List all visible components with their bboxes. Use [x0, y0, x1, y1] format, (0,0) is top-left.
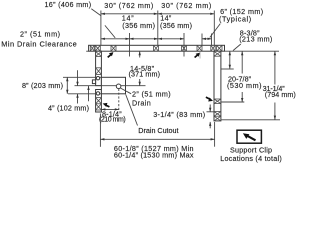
dimension span C (unlabelled): [158, 38, 184, 40]
support clip legend box: [237, 130, 261, 143]
label support clip locations: [220, 146, 282, 164]
dimension 8-1/4 horizontal: [101, 108, 118, 110]
svg-text:(530 mm): (530 mm): [227, 81, 262, 90]
right vertical support upright: [214, 51, 221, 121]
dimension 6in typical span: [202, 38, 212, 40]
dimension 30in first span: [101, 13, 158, 15]
svg-text:2” (51 mm): 2” (51 mm): [20, 29, 60, 38]
svg-text:30” (762 mm): 30” (762 mm): [161, 1, 211, 10]
dimension 8-3/8 vertical: [221, 51, 234, 69]
support clip pointer arrow P4: [103, 103, 110, 107]
drain centerline L2: [75, 85, 146, 87]
extension line at x=214.3: [213, 11, 215, 46]
dimension 20-7/8 vertical: [221, 51, 244, 102]
extension line at x=157.8: [157, 11, 159, 46]
svg-text:(Typical): (Typical): [219, 15, 251, 24]
label 31-1/4: [263, 84, 296, 99]
svg-text:Drain: Drain: [132, 99, 151, 108]
hatch cells on left upright lower: [96, 98, 102, 110]
bottom line of right upright extended: [221, 119, 280, 121]
hatch cells on right upright: [214, 51, 221, 121]
support clip pointer arrow P2: [195, 53, 201, 58]
svg-text:16” (406 mm): 16” (406 mm): [45, 0, 92, 9]
label 14-5/8: [129, 64, 161, 79]
leader segment to 14in row: [105, 25, 115, 38]
hole centerline L1 (top of cutout extended left): [63, 76, 101, 78]
svg-text:(356 mm): (356 mm): [160, 21, 192, 30]
dimension 3-1/4 arrows: [207, 105, 215, 129]
leader from drain cutout label to cutout corner: [126, 95, 138, 126]
mounting hole upper on left upright: [96, 77, 99, 80]
dimension 60-1/8 / 60-1/4 overall: [100, 114, 214, 147]
left vertical support upright (upper segment): [96, 51, 102, 85]
arrow pointing at drain centerline: [87, 86, 89, 101]
extension line at x=129.5: [129, 33, 131, 57]
svg-text:(213 mm): (213 mm): [239, 35, 272, 44]
svg-text:(356 mm): (356 mm): [122, 21, 155, 30]
label 8-3/8: [239, 29, 272, 44]
dimension 30in second span: [158, 13, 215, 15]
dimension 14in span A: [101, 38, 130, 40]
svg-text:30” (762 mm): 30” (762 mm): [104, 1, 153, 10]
svg-text:(210 mm): (210 mm): [99, 117, 126, 124]
dimension 31-1/4 vertical: [274, 51, 276, 119]
svg-text:Drain Cutout: Drain Cutout: [138, 126, 178, 135]
mounting hole lower on left upright: [96, 92, 99, 95]
dimension 14-5/8 vertical: [139, 51, 141, 85]
leader from Typical label: [210, 24, 221, 38]
extension line at x=211.5: [211, 34, 213, 46]
dimension 4in arrows: [76, 70, 78, 103]
drain hole: [116, 84, 121, 89]
dimension 8in vertical: [66, 77, 68, 94]
extension line at x=202: [201, 34, 203, 46]
faint tick below bar at x=200: [199, 52, 201, 59]
svg-text:60-1/4” (1530 mm) Max: 60-1/4” (1530 mm) Max: [114, 151, 194, 160]
leader from drain hole to its label: [120, 88, 131, 94]
drain cutout rectangle: [101, 77, 125, 94]
svg-text:2” (51 mm): 2” (51 mm): [132, 89, 171, 98]
svg-text:8” (203 mm): 8” (203 mm): [22, 81, 63, 90]
svg-text:Min Drain Clearance: Min Drain Clearance: [1, 40, 77, 49]
hatch cells on left upright upper: [96, 51, 102, 74]
extension line at x=184: [183, 33, 185, 57]
svg-text:4” (102 mm): 4” (102 mm): [48, 104, 89, 113]
support clip pointer arrow P1: [108, 52, 114, 57]
support clip pointer arrow P3: [206, 97, 213, 101]
label 20-7/8: [227, 74, 262, 90]
top horizontal support bar: [86, 45, 224, 51]
leader from 213mm label: [233, 44, 241, 51]
label 2in min drain clearance: [1, 29, 77, 48]
dimension 14in span B: [130, 38, 159, 40]
support clip hatch cells on top bar: [90, 45, 222, 51]
mounting plate tab on left upright: [92, 80, 95, 84]
svg-text:Locations (4 total): Locations (4 total): [220, 154, 282, 163]
label 2in drain: [132, 89, 171, 107]
svg-text:(794 mm): (794 mm): [265, 90, 296, 99]
dashed extension from drain down: [118, 89, 120, 112]
svg-text:(371 mm): (371 mm): [129, 70, 161, 79]
label 8-1/4: [99, 110, 126, 124]
leader from 16in label: [91, 9, 101, 16]
line L3 (bottom of cutout extended left): [68, 93, 101, 95]
left vertical support upright (lower segment): [96, 90, 102, 113]
deck line extended right: [225, 50, 280, 52]
extension line at x=100.9: [100, 11, 102, 46]
svg-text:3-1/4” (83 mm): 3-1/4” (83 mm): [153, 110, 205, 119]
